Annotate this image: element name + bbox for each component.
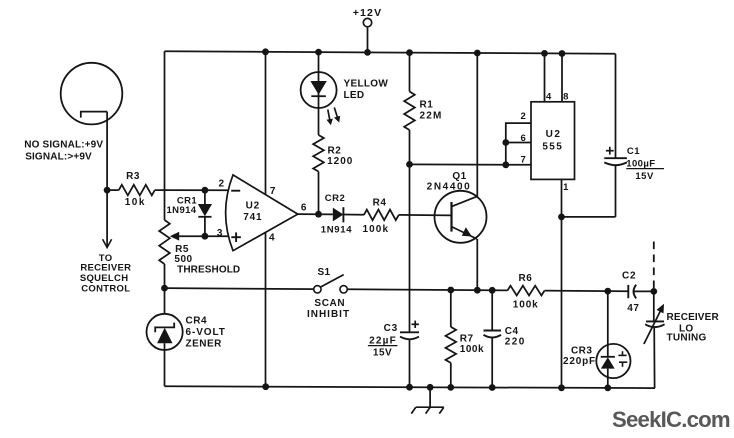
wire center rail down to C3 (409, 164, 411, 332)
svg-text:100µF: 100µF (626, 159, 655, 170)
wire 555 pin 8 to bus (561, 54, 563, 102)
capacitor C1 100uF (604, 157, 627, 159)
node top bus / 555 pin 8 (559, 50, 566, 57)
diode CR2 1N914 (333, 208, 344, 222)
node ground stub / bottom bus (427, 384, 434, 391)
svg-text:1N914: 1N914 (321, 224, 353, 235)
svg-text:C1: C1 (627, 146, 640, 157)
+12V terminal (363, 18, 371, 26)
node A - R3 / test point / squelch arrow (104, 187, 111, 194)
node scan / C4 (489, 287, 496, 294)
svg-text:INHIBIT: INHIBIT (307, 309, 350, 320)
op-amp U2 741 body (226, 175, 298, 251)
node scan / Q1 emitter (474, 287, 481, 294)
wire 555 pin 7 feed line (410, 163, 506, 165)
wire op-amp output to Q1 base (298, 213, 333, 215)
svg-text:TUNING: TUNING (667, 333, 707, 344)
node C2 / tuning line (650, 288, 657, 295)
svg-text:6-VOLT: 6-VOLT (186, 327, 226, 338)
capacitor C2 47 (627, 285, 629, 298)
svg-text:RECEIVER: RECEIVER (80, 262, 131, 273)
switch S1 (314, 286, 321, 293)
capacitor C3 22uF (400, 331, 419, 333)
wire 555 pin 4 to bus (544, 53, 546, 101)
wire arrow to receiver squelch control (106, 190, 108, 247)
node R7 / bottom bus (447, 384, 454, 391)
svg-text:8: 8 (563, 92, 569, 103)
wire +12V stub (367, 27, 369, 53)
wire top bus right drop to C1 (615, 54, 617, 158)
svg-text:THRESHOLD: THRESHOLD (177, 265, 240, 276)
svg-text:6: 6 (301, 203, 307, 214)
svg-text:SeekIC.com: SeekIC.com (612, 407, 730, 432)
IC U2 555 body (531, 102, 575, 180)
wire test point to R3 node (106, 112, 108, 191)
op-amp plus sign (231, 236, 241, 238)
diode CR3 220pF varactor (607, 291, 609, 357)
svg-text:4: 4 (269, 233, 275, 244)
wire scan line right segment (347, 289, 507, 290)
node scan / R7 (447, 287, 454, 294)
svg-text:2N4400: 2N4400 (427, 182, 472, 193)
svg-text:741: 741 (243, 212, 262, 223)
LED emission arrows (328, 110, 330, 121)
svg-text:2: 2 (520, 111, 526, 122)
CR3 varactor cap ticks (622, 351, 624, 355)
node pin6 / pin2 tie (502, 139, 509, 146)
zener diode CR4 6-volt (164, 288, 166, 314)
C1 polarity plus (606, 150, 614, 152)
variable capacitor receiver LO tuning (653, 291, 655, 321)
svg-text:SIGNAL:>+9V: SIGNAL:>+9V (25, 151, 92, 162)
node R1 / 555 pin7 feed (406, 161, 413, 168)
wire bottom ground bus (165, 386, 656, 388)
svg-text:1200: 1200 (327, 156, 353, 167)
node scan line / left rail (161, 285, 168, 292)
wire top +12V bus (165, 51, 616, 54)
svg-text:3: 3 (217, 228, 223, 239)
svg-text:CONTROL: CONTROL (81, 284, 130, 295)
node pin 4 / bottom bus (262, 383, 269, 390)
svg-text:100k: 100k (460, 344, 484, 355)
svg-text:+12V: +12V (353, 7, 383, 19)
node +12V bus junction (364, 49, 371, 56)
node pin2 wire / CR1 top (202, 187, 209, 194)
pot wiper arrow R5 (173, 235, 205, 237)
node top bus / op-amp pin7 rail (262, 48, 269, 55)
svg-text:100k: 100k (362, 224, 389, 235)
test point circle (receiver test point) (61, 63, 123, 125)
svg-text:1N914: 1N914 (167, 205, 197, 216)
wire op-amp pin 4 to ground bus (265, 232, 267, 386)
svg-text:U2: U2 (246, 201, 260, 212)
svg-text:LED: LED (344, 90, 365, 101)
svg-text:22µF: 22µF (369, 336, 397, 347)
svg-text:22M: 22M (420, 110, 443, 121)
node output / R2 bottom (315, 211, 322, 218)
node top bus / Q1 collector (474, 50, 481, 57)
svg-text:R1: R1 (420, 100, 434, 111)
svg-text:500: 500 (174, 254, 192, 265)
wire op-amp pin 3 input (205, 235, 229, 237)
svg-text:CR4: CR4 (186, 315, 208, 326)
wire 555 pin 2 (506, 123, 531, 165)
tuning arrow (644, 309, 662, 344)
svg-text:100k: 100k (513, 299, 539, 310)
node CR3 / bottom bus (604, 385, 611, 392)
node pin1 / C1 return (558, 214, 565, 221)
wire scan line left segment (165, 288, 314, 289)
potentiometer R5 (159, 220, 170, 264)
svg-text:S1: S1 (317, 267, 330, 278)
wire op-amp pin 2 input (165, 189, 229, 191)
op-amp minus sign (231, 190, 240, 192)
svg-text:ZENER: ZENER (186, 339, 223, 350)
wire 555 pin 6 (506, 142, 531, 144)
svg-text:7: 7 (270, 186, 276, 197)
wire left rail from top bus to R5 (164, 51, 166, 220)
diode CR1 1N914 (204, 190, 206, 204)
node top bus / 555 pin 4 (541, 50, 548, 57)
svg-text:YELLOW: YELLOW (344, 79, 389, 90)
svg-text:4: 4 (546, 92, 552, 103)
wire dashed to receiver LO (653, 242, 655, 289)
svg-text:15V: 15V (373, 348, 392, 359)
wire scan to C2 (608, 290, 629, 292)
svg-text:RECEIVER: RECEIVER (667, 312, 720, 323)
node pin3 wire / CR1 bottom (202, 233, 209, 240)
svg-text:R6: R6 (519, 273, 533, 284)
node top bus / LED branch (315, 49, 322, 56)
svg-text:10k: 10k (125, 197, 146, 208)
resistor R7 100k (450, 290, 452, 327)
svg-text:CR2: CR2 (325, 193, 346, 204)
ground symbol (429, 387, 431, 407)
node top bus / R1 branch (406, 49, 413, 56)
svg-text:2: 2 (219, 179, 225, 190)
svg-text:C3: C3 (384, 323, 398, 334)
svg-text:SCAN: SCAN (314, 298, 345, 309)
svg-text:R4: R4 (373, 198, 387, 209)
capacitor C4 220 (491, 290, 493, 330)
svg-text:R7: R7 (460, 333, 474, 344)
svg-text:C2: C2 (622, 271, 636, 282)
resistor R2 1200 (318, 108, 320, 135)
resistor R6 100k (507, 286, 544, 296)
resistor R4 100k (364, 210, 399, 221)
svg-text:1: 1 (563, 182, 569, 193)
svg-text:15V: 15V (635, 171, 654, 182)
node scan / CR3 (604, 288, 611, 295)
transistor Q1 2N4400 (435, 191, 487, 243)
wire Q1 collector to bus (476, 53, 478, 197)
svg-text:R3: R3 (126, 171, 140, 182)
svg-text:220pF: 220pF (563, 356, 596, 367)
node pin7 tie (502, 161, 509, 168)
svg-text:220: 220 (505, 336, 526, 347)
svg-text:U2: U2 (546, 129, 562, 140)
svg-text:7: 7 (520, 155, 526, 166)
resistor R3 (107, 189, 119, 191)
node pin1 / bottom bus (558, 384, 565, 391)
svg-text:NO SIGNAL:+9V: NO SIGNAL:+9V (24, 140, 103, 151)
node C3 / bottom bus (406, 384, 413, 391)
resistor R1 22M (409, 53, 411, 92)
C3 polarity plus (412, 323, 419, 325)
svg-text:6: 6 (520, 133, 526, 144)
node C4 / bottom bus (489, 384, 496, 391)
svg-text:47: 47 (627, 303, 639, 314)
wire 555 pin 1 down (561, 179, 563, 387)
probe tab inside test point (81, 112, 107, 118)
wire 555 pin 7 box stub (506, 164, 531, 166)
wire Q1 emitter to scan line (476, 239, 478, 290)
wire op-amp pin 7 to bus (265, 52, 267, 195)
svg-text:555: 555 (542, 142, 563, 153)
svg-text:SQUELCH: SQUELCH (80, 273, 129, 284)
LED yellow indicator (318, 52, 320, 108)
